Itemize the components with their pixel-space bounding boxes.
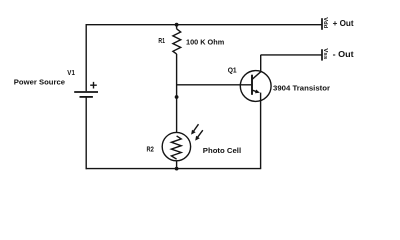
svg-text:Vdd: Vdd [322, 17, 328, 28]
svg-text:3904 Transistor: 3904 Transistor [273, 83, 330, 92]
svg-text:Q1: Q1 [228, 65, 237, 74]
svg-text:100 K Ohm: 100 K Ohm [186, 37, 224, 46]
svg-text:R2: R2 [147, 145, 154, 154]
svg-text:+ Out: + Out [333, 19, 354, 28]
svg-text:- Out: - Out [333, 50, 354, 59]
svg-text:Vss: Vss [322, 48, 328, 59]
svg-text:Photo Cell: Photo Cell [203, 146, 241, 155]
svg-text:R1: R1 [158, 36, 165, 45]
svg-text:Power Source: Power Source [14, 78, 65, 87]
svg-text:V1: V1 [67, 68, 75, 77]
